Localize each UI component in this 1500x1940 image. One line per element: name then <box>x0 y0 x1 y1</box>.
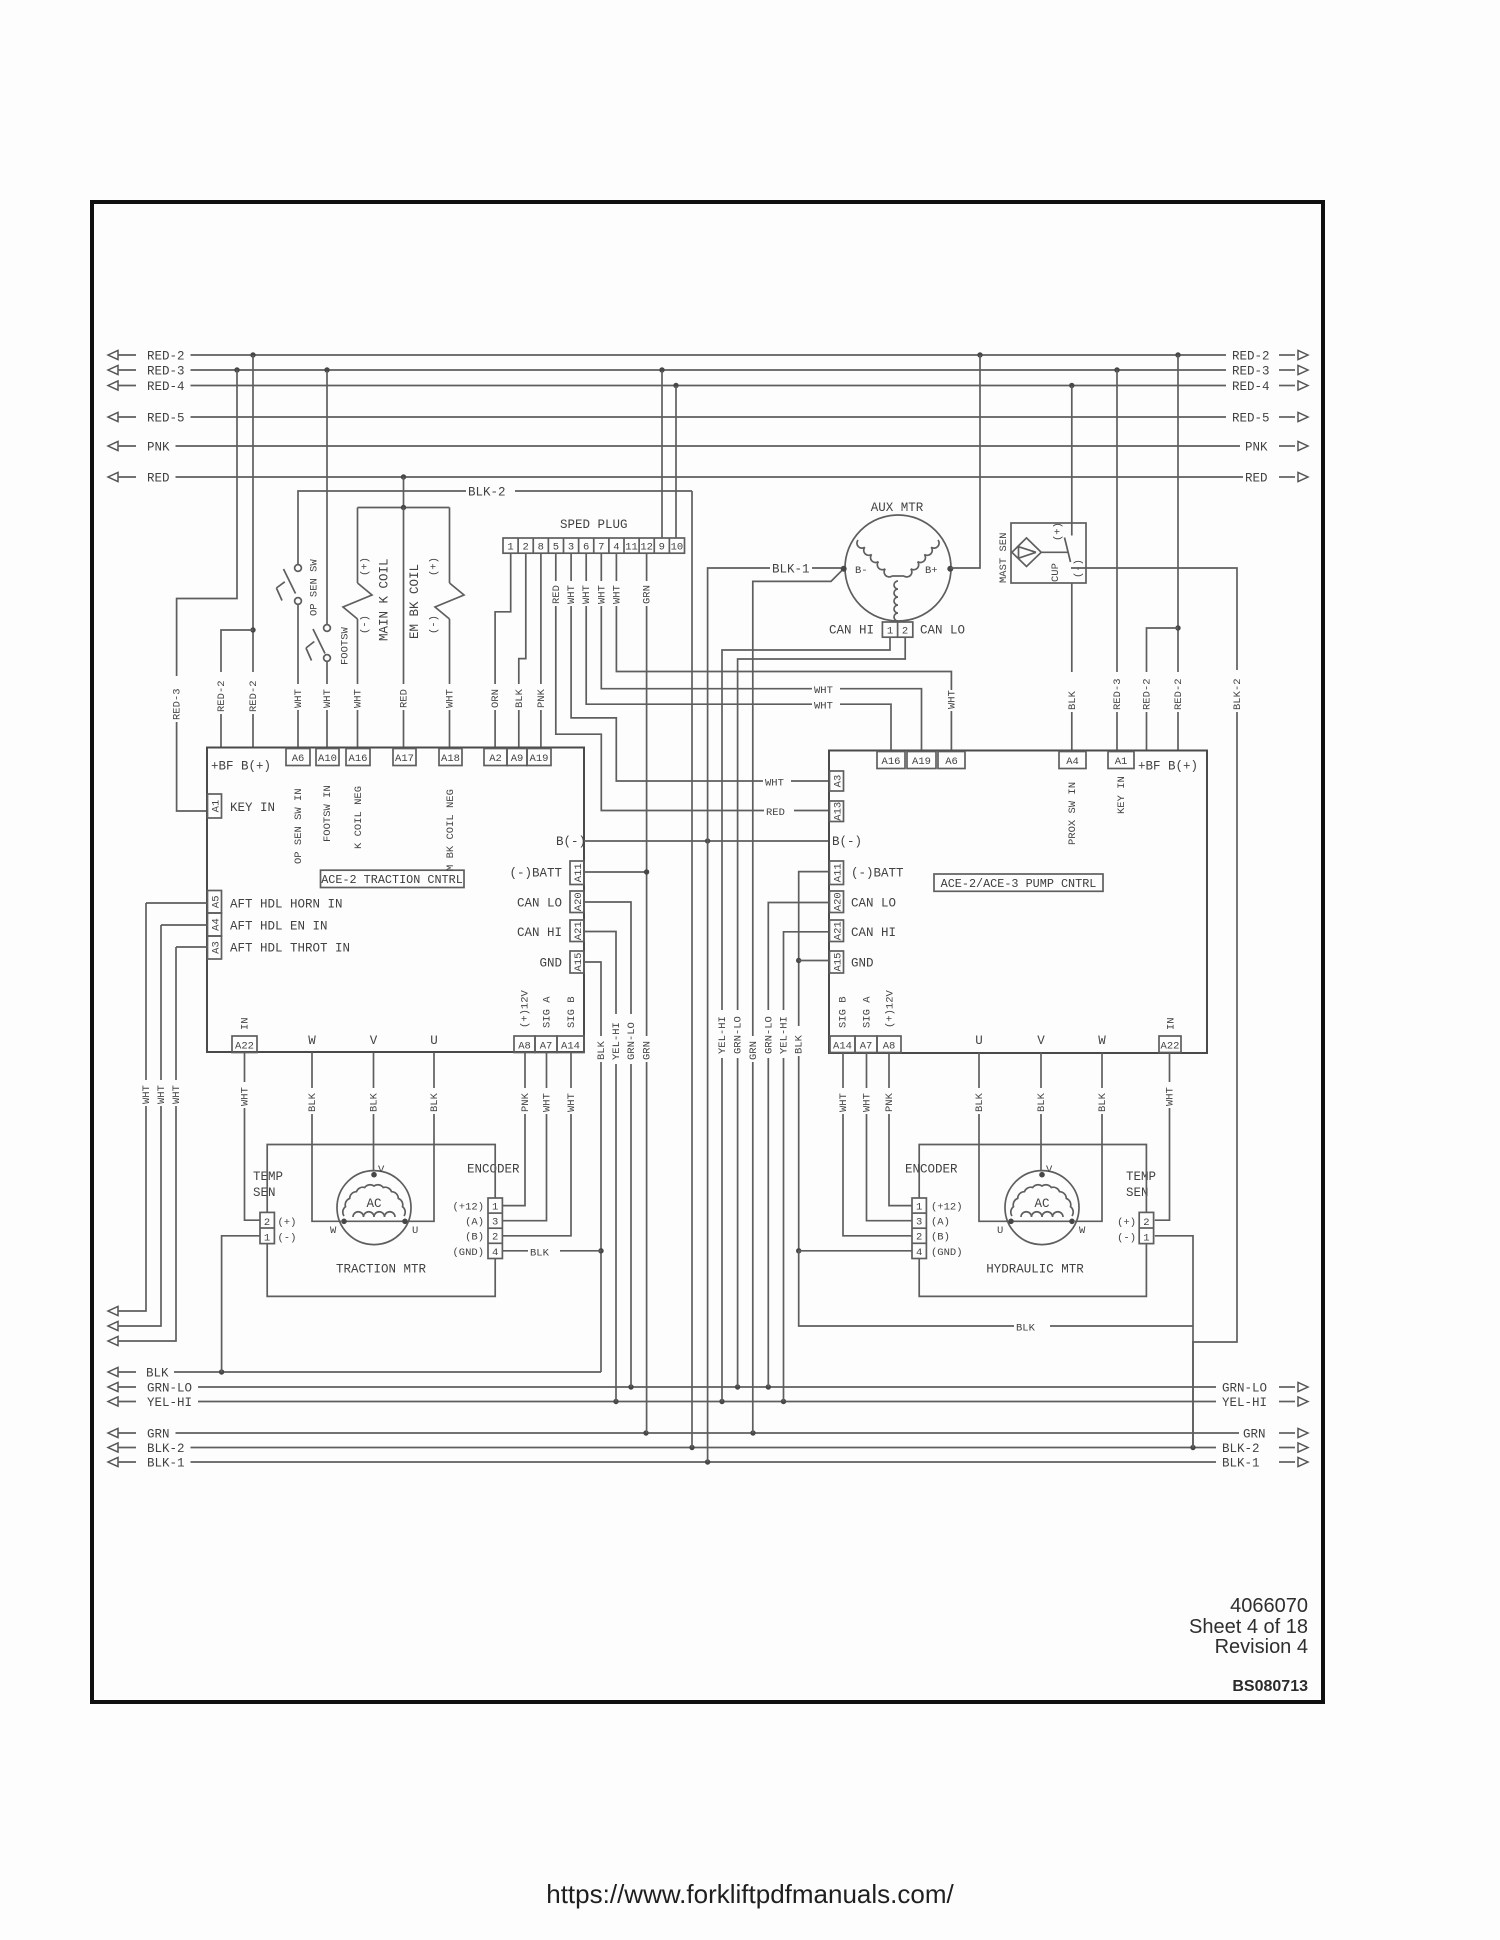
svg-text:AFT HDL HORN IN: AFT HDL HORN IN <box>230 898 343 912</box>
svg-text:SPED PLUG: SPED PLUG <box>560 518 628 532</box>
svg-text:(+12): (+12) <box>931 1202 963 1214</box>
svg-text:RED-5: RED-5 <box>147 412 185 426</box>
pin A5 traction (AFT HDL HORN IN) <box>208 891 343 914</box>
svg-text:(+): (+) <box>360 557 372 576</box>
svg-text:A1: A1 <box>1115 756 1128 768</box>
wire RED bus drop to coil common <box>403 477 405 508</box>
svg-text:RED-2: RED-2 <box>1232 350 1270 364</box>
svg-text:BLK: BLK <box>307 1092 319 1112</box>
svg-text:BLK-2: BLK-2 <box>1232 678 1244 710</box>
svg-text:B+: B+ <box>925 565 938 577</box>
svg-text:A1: A1 <box>210 800 222 813</box>
svg-text:2: 2 <box>264 1217 270 1229</box>
label W V U traction <box>308 1034 438 1048</box>
svg-text:A13: A13 <box>832 802 844 821</box>
pin A16 pump top <box>877 752 905 769</box>
svg-text:RED: RED <box>766 807 785 819</box>
wire bus RED-3 (top) <box>108 365 1308 379</box>
connector ENCODER pump <box>905 1163 963 1259</box>
svg-text:GRN: GRN <box>748 1041 760 1060</box>
svg-text:3: 3 <box>916 1217 922 1229</box>
pin A2 traction top <box>484 749 507 766</box>
svg-text:WHT: WHT <box>566 1093 578 1112</box>
svg-text:A7: A7 <box>860 1040 873 1052</box>
svg-text:(A): (A) <box>931 1217 950 1229</box>
svg-text:3: 3 <box>492 1217 498 1229</box>
svg-text:GRN: GRN <box>642 1041 654 1060</box>
wire CAN HI traction (YEL-HI) <box>584 932 623 1402</box>
svg-text:CAN LO: CAN LO <box>517 897 562 911</box>
wire GND traction (BLK) <box>584 962 608 1372</box>
pin A3 pump (WHT) <box>830 771 845 791</box>
svg-text:BLK: BLK <box>1016 1323 1036 1335</box>
svg-text:V: V <box>1046 1164 1053 1176</box>
svg-text:WHT: WHT <box>542 1093 554 1112</box>
svg-text:A7: A7 <box>540 1040 553 1052</box>
wire bus BLK (bottom left) <box>108 1367 601 1381</box>
svg-text:+BF B(+): +BF B(+) <box>211 760 271 774</box>
svg-text:A20: A20 <box>573 892 585 911</box>
svg-text:(-): (-) <box>278 1233 297 1245</box>
svg-text:BLK: BLK <box>794 1034 806 1054</box>
svg-text:ENCODER: ENCODER <box>467 1163 520 1177</box>
node RED-4 junctions <box>673 383 1074 388</box>
pin A18 traction top <box>439 749 462 766</box>
svg-text:V: V <box>370 1034 378 1048</box>
wire bus GRN-LO (bottom) <box>108 1382 1308 1396</box>
svg-text:WHT: WHT <box>171 1085 183 1104</box>
wire RED-3 to traction A1 KEY IN <box>170 370 237 811</box>
svg-text:1: 1 <box>507 542 513 554</box>
wire BLK-2 (top, to OP SEN SW and down mid) <box>298 484 692 565</box>
svg-text:WHT: WHT <box>581 585 593 604</box>
wire ORN SPED pin1 to A2 <box>489 553 511 748</box>
svg-text:RED-3: RED-3 <box>1232 365 1270 379</box>
svg-text:WHT: WHT <box>322 689 334 708</box>
wire GRN SPED pin12 to GRN bus <box>640 553 654 1433</box>
svg-text:CAN HI: CAN HI <box>829 624 874 638</box>
svg-text:B(-): B(-) <box>832 835 862 849</box>
svg-text:AFT HDL THROT IN: AFT HDL THROT IN <box>230 942 350 956</box>
svg-text:WHT: WHT <box>293 689 305 708</box>
wire BLK U phase pump <box>973 1053 1009 1222</box>
svg-text:YEL-HI: YEL-HI <box>611 1022 623 1060</box>
svg-text:3: 3 <box>568 542 574 554</box>
wire WHT AFT HDL EN (arrow) <box>108 925 161 1331</box>
svg-text:A2: A2 <box>489 753 502 765</box>
label WHT x3 on AFT HDL wires <box>140 1080 183 1106</box>
svg-text:BLK: BLK <box>429 1092 441 1112</box>
svg-text:BLK: BLK <box>514 688 526 708</box>
svg-text:WHT: WHT <box>946 690 958 709</box>
svg-text:(-): (-) <box>1117 1233 1136 1245</box>
wire MAST SEN (-) to BLK-2 right <box>1071 568 1244 1448</box>
svg-text:1: 1 <box>264 1233 270 1245</box>
node BLK junction <box>219 1369 224 1374</box>
wire WHT SPED pin7 to pump A19 <box>595 553 922 751</box>
svg-text:BLK-1: BLK-1 <box>1222 1457 1260 1471</box>
svg-text:A19: A19 <box>912 756 931 768</box>
svg-text:RED-2: RED-2 <box>1173 678 1185 710</box>
pin A14 pump (SIG B) <box>830 996 855 1052</box>
sensor MAST SEN (CUP switch) <box>998 522 1086 583</box>
svg-text:1: 1 <box>1143 1233 1149 1245</box>
svg-text:BLK-1: BLK-1 <box>772 563 810 577</box>
svg-text:GRN-LO: GRN-LO <box>626 1022 638 1060</box>
pin A19 traction top <box>527 749 551 766</box>
svg-text:GRN: GRN <box>147 1428 170 1442</box>
wire bus YEL-HI (bottom) <box>108 1396 1308 1410</box>
svg-text:A8: A8 <box>518 1040 531 1052</box>
svg-text:SIG A: SIG A <box>542 996 554 1028</box>
wire WHT OP SEN SW to A6 <box>292 605 306 749</box>
svg-text:A20: A20 <box>832 892 844 911</box>
pin A15 pump (GND) <box>830 951 874 973</box>
svg-text:ENCODER: ENCODER <box>905 1163 958 1177</box>
svg-text:BLK-2: BLK-2 <box>1222 1442 1260 1456</box>
label EM BK COIL <box>408 564 422 639</box>
svg-text:GRN-LO: GRN-LO <box>763 1016 775 1054</box>
svg-text:B(-): B(-) <box>556 835 586 849</box>
svg-text:BLK: BLK <box>596 1040 608 1060</box>
svg-text:SIG B: SIG B <box>838 996 850 1028</box>
svg-text:7: 7 <box>598 542 604 554</box>
svg-text:4066070: 4066070 <box>1230 1595 1308 1617</box>
svg-text:Sheet 4 of 18: Sheet 4 of 18 <box>1189 1616 1308 1638</box>
motor AUX MTR <box>841 501 954 621</box>
node GRN junctions <box>643 1430 755 1435</box>
wire CAN LO pump (GRN-LO) <box>762 903 829 1388</box>
wire B(-) traction to pump B(-) <box>584 838 829 843</box>
wire bus RED (top) <box>108 472 1308 486</box>
svg-text:WHT: WHT <box>445 689 457 708</box>
svg-text:GRN: GRN <box>1243 1428 1266 1442</box>
svg-text:A11: A11 <box>832 863 844 882</box>
svg-text:(+)12V: (+)12V <box>520 989 532 1028</box>
svg-text:WHT: WHT <box>814 701 833 713</box>
svg-text:(-): (-) <box>360 615 372 634</box>
wire BLK W phase traction <box>306 1053 342 1222</box>
svg-text:A22: A22 <box>235 1040 254 1052</box>
svg-text:BLK-2: BLK-2 <box>147 1442 185 1456</box>
label ACE-2 TRACTION CNTRL <box>321 870 465 887</box>
pin A16 traction top <box>346 749 370 766</box>
wire GND pump <box>799 960 829 962</box>
wire bus BLK-2 (bottom) <box>108 1442 1308 1456</box>
svg-text:RED-3: RED-3 <box>1112 678 1124 710</box>
wire WHT A22 to TEMP SEN (+) <box>238 1053 260 1221</box>
svg-text:RED: RED <box>551 585 563 604</box>
svg-text:WHT: WHT <box>240 1087 252 1106</box>
svg-text:5: 5 <box>553 542 559 554</box>
wire WHT AFT HDL THROT (arrow) <box>108 947 176 1346</box>
svg-text:RED-3: RED-3 <box>172 688 184 720</box>
svg-text:1: 1 <box>887 626 893 638</box>
wire RED-2 branch to traction +BF <box>215 630 254 748</box>
motor HYDRAULIC MTR <box>986 1164 1086 1277</box>
svg-text:PNK: PNK <box>520 1092 532 1112</box>
svg-text:AFT HDL EN IN: AFT HDL EN IN <box>230 920 328 934</box>
svg-text:BLK: BLK <box>369 1092 381 1112</box>
svg-text:(-)BATT: (-)BATT <box>509 867 562 881</box>
svg-text:A17: A17 <box>395 753 414 765</box>
svg-text:KEY IN: KEY IN <box>1116 776 1128 814</box>
svg-text:(+): (+) <box>1053 522 1065 541</box>
svg-text:V: V <box>1037 1034 1045 1048</box>
svg-text:https://www.forkliftpdfmanuals: https://www.forkliftpdfmanuals.com/ <box>546 1879 954 1909</box>
svg-text:RED-2: RED-2 <box>147 350 185 364</box>
svg-text:(GND): (GND) <box>931 1247 963 1259</box>
svg-text:(A): (A) <box>465 1217 484 1229</box>
svg-text:BS080713: BS080713 <box>1232 1678 1308 1695</box>
svg-text:AUX MTR: AUX MTR <box>871 501 924 515</box>
wire (-)BATT traction to GRN <box>584 869 649 874</box>
svg-text:CAN HI: CAN HI <box>517 926 562 940</box>
svg-text:ACE-2 TRACTION CNTRL: ACE-2 TRACTION CNTRL <box>321 873 463 887</box>
svg-text:WHT: WHT <box>156 1085 168 1104</box>
wire BLK pump TEMP SEN (-) <box>799 1236 1193 1448</box>
wire bus BLK-1 (bottom) <box>108 1457 1308 1471</box>
svg-text:BLK: BLK <box>1097 1092 1109 1112</box>
svg-text:OP SEN SW IN: OP SEN SW IN <box>293 788 305 864</box>
wire BLK U phase traction <box>408 1053 441 1222</box>
svg-text:MAIN K COIL: MAIN K COIL <box>378 558 392 641</box>
svg-text:RED-5: RED-5 <box>1232 412 1270 426</box>
svg-text:GND: GND <box>539 957 562 971</box>
wire AFT HDL EN IN <box>161 924 208 926</box>
svg-text:CUP: CUP <box>1050 563 1062 582</box>
svg-text:WHT: WHT <box>566 585 578 604</box>
wire RED SPED pin5 to pump A13 <box>549 553 829 819</box>
wire (-)BATT pump (BLK drop) <box>792 872 829 1254</box>
node BLK-2 junctions <box>689 1445 1195 1450</box>
svg-text:RED: RED <box>147 472 170 486</box>
label MAIN K COIL <box>378 558 392 641</box>
svg-text:CAN HI: CAN HI <box>851 926 896 940</box>
svg-text:A16: A16 <box>882 756 901 768</box>
svg-text:RED-2: RED-2 <box>1142 678 1154 710</box>
svg-text:A16: A16 <box>349 753 368 765</box>
node YEL-HI junctions <box>613 1399 786 1404</box>
wire RED coil common to A17 <box>397 508 411 749</box>
svg-text:4: 4 <box>916 1247 922 1259</box>
pin A7 pump (SIG A) <box>855 996 877 1053</box>
pin A21 pump (CAN HI) <box>830 920 897 942</box>
switch FOOTSW <box>306 625 352 665</box>
svg-text:BLK: BLK <box>974 1092 986 1112</box>
svg-text:A19: A19 <box>530 753 549 765</box>
wire motor cable loop pump <box>919 1145 1146 1297</box>
svg-text:RED: RED <box>399 689 411 708</box>
pin A20 pump (CAN LO) <box>830 891 897 913</box>
wire bus GRN (bottom) <box>108 1428 1308 1442</box>
svg-text:ORN: ORN <box>490 689 502 708</box>
svg-text:PNK: PNK <box>536 688 548 708</box>
pin A22 pump (IN) <box>1159 1017 1181 1052</box>
node BLK-1 junctions <box>705 1459 710 1464</box>
svg-text:4: 4 <box>613 542 619 554</box>
svg-text:A9: A9 <box>511 753 524 765</box>
svg-text:EM BK COIL: EM BK COIL <box>408 564 422 639</box>
svg-text:WHT: WHT <box>1165 1087 1177 1106</box>
svg-text:A6: A6 <box>945 756 958 768</box>
wire CAN HI pump (YEL-HI) <box>777 932 829 1402</box>
wire coil top common <box>358 505 450 510</box>
svg-text:GND: GND <box>851 957 874 971</box>
pin A11 pump ((-)BATT) <box>830 861 905 885</box>
svg-text:(GND): (GND) <box>452 1247 484 1259</box>
svg-text:U: U <box>430 1034 438 1048</box>
svg-text:CAN LO: CAN LO <box>851 897 896 911</box>
svg-text:A21: A21 <box>573 921 585 940</box>
pin A4 traction (AFT HDL EN IN) <box>208 913 328 936</box>
svg-text:YEL-HI: YEL-HI <box>717 1016 729 1054</box>
svg-text:(B): (B) <box>931 1232 950 1244</box>
pin A13 pump (RED) <box>830 801 845 822</box>
wire encoder GND pump to BLK <box>799 1250 912 1252</box>
pin A8 pump ((+)12V) <box>877 989 901 1052</box>
svg-text:(+): (+) <box>278 1217 297 1229</box>
wire motor cable loop traction <box>267 1145 495 1297</box>
svg-text:SIG B: SIG B <box>566 996 578 1028</box>
svg-text:RED-2: RED-2 <box>216 680 228 712</box>
svg-text:A5: A5 <box>210 895 222 908</box>
svg-text:6: 6 <box>583 542 589 554</box>
svg-text:A8: A8 <box>883 1040 896 1052</box>
svg-text:WHT: WHT <box>611 585 623 604</box>
wire BLK encoder GND traction <box>502 1244 601 1260</box>
svg-text:A15: A15 <box>832 953 844 972</box>
svg-text:V: V <box>378 1164 385 1176</box>
wire WHT A7 to encoder 3 <box>502 1053 553 1221</box>
svg-text:K COIL NEG: K COIL NEG <box>353 786 365 849</box>
svg-text:BLK: BLK <box>1036 1092 1048 1112</box>
wire WHT AFT HDL HORN (arrow) <box>108 903 146 1316</box>
svg-text:WHT: WHT <box>596 585 608 604</box>
wire BLK W phase pump <box>1075 1053 1109 1222</box>
border frame <box>92 202 1323 1702</box>
svg-text:(-)BATT: (-)BATT <box>851 867 904 881</box>
svg-text:Revision 4: Revision 4 <box>1215 1636 1308 1658</box>
wire SPED pin 10 from RED-4 <box>675 386 677 538</box>
svg-text:A18: A18 <box>441 753 460 765</box>
pin A10 traction top <box>316 749 339 766</box>
svg-text:U: U <box>412 1225 418 1237</box>
pin A14 traction (SIG B) <box>557 996 584 1052</box>
wire RED-2 to traction B(+) <box>247 355 261 748</box>
svg-text:W: W <box>330 1225 337 1237</box>
wire PNK A8 to encoder 1 <box>502 1053 532 1206</box>
svg-text:CAN LO: CAN LO <box>920 624 965 638</box>
svg-text:WHT: WHT <box>838 1093 850 1112</box>
svg-text:FOOTSW: FOOTSW <box>340 626 352 665</box>
svg-text:A14: A14 <box>833 1040 852 1052</box>
pin A20 traction (CAN LO) <box>517 891 585 913</box>
node RED junction <box>401 474 406 479</box>
svg-text:PNK: PNK <box>147 441 170 455</box>
svg-text:A4: A4 <box>210 918 222 931</box>
wire BLK SPED pin2 to A9 <box>512 553 526 748</box>
wire WHT A14 pump to encoder 2 <box>837 1053 913 1236</box>
wire BLK V phase traction <box>367 1053 381 1172</box>
wire AFT HDL HORN IN <box>146 902 208 904</box>
wire WHT SPED pin4 to pump A6 <box>610 553 959 751</box>
svg-text:(+): (+) <box>1117 1217 1136 1229</box>
node RED-3 junctions <box>234 367 1119 372</box>
connector AUX CAN (1 2) <box>829 622 965 638</box>
svg-text:WHT: WHT <box>141 1085 153 1104</box>
svg-text:(+)12V: (+)12V <box>885 989 897 1028</box>
connector TEMP SEN pump <box>1117 1170 1156 1245</box>
svg-text:AC: AC <box>1034 1197 1049 1211</box>
svg-text:RED-4: RED-4 <box>1232 380 1270 394</box>
svg-text:RED: RED <box>1245 472 1268 486</box>
svg-text:9: 9 <box>659 542 665 554</box>
svg-text:(+): (+) <box>429 557 441 576</box>
pin A7 traction (SIG A) <box>535 996 557 1053</box>
wire AFT HDL THROT IN <box>176 946 208 948</box>
svg-text:M BK COIL NEG: M BK COIL NEG <box>445 789 457 871</box>
node RED-2 junctions <box>250 352 1180 357</box>
pin A6 traction top <box>286 749 310 766</box>
svg-text:11: 11 <box>625 542 638 554</box>
svg-text:BLK: BLK <box>1067 690 1079 710</box>
svg-text:FOOTSW IN: FOOTSW IN <box>322 785 334 842</box>
pin A15 traction (GND) <box>539 951 584 973</box>
wire PNK SPED pin8 to A19 <box>534 553 548 748</box>
svg-text:B-: B- <box>855 565 868 577</box>
svg-text:BLK-2: BLK-2 <box>468 486 506 500</box>
svg-text:1: 1 <box>492 1202 498 1214</box>
wire bus RED-4 (top) <box>108 380 1308 394</box>
svg-text:A15: A15 <box>573 953 585 972</box>
svg-text:2: 2 <box>902 626 908 638</box>
svg-text:U: U <box>997 1225 1003 1237</box>
svg-text:10: 10 <box>671 542 684 554</box>
label ACE-2/ACE-3 PUMP CNTRL <box>934 874 1103 891</box>
svg-text:HYDRAULIC MTR: HYDRAULIC MTR <box>986 1263 1084 1277</box>
pin A3 traction (AFT HDL THROT IN) <box>208 936 351 959</box>
svg-text:W: W <box>308 1034 316 1048</box>
pin A17 traction top <box>393 749 416 766</box>
wire AUX B- to GRN vertical <box>746 569 843 1433</box>
wire bus RED-2 (top) <box>108 350 1308 364</box>
label U V W pump <box>975 1034 1106 1048</box>
svg-text:12: 12 <box>640 542 653 554</box>
wire RED-2 to pump B(+) <box>1172 355 1186 751</box>
svg-text:GRN-LO: GRN-LO <box>147 1382 192 1396</box>
pin A1 pump top <box>1108 752 1134 769</box>
wire BLK-2 mid vertical <box>691 491 693 1448</box>
svg-text:TEMP: TEMP <box>1126 1170 1156 1184</box>
wire AUX B+ to RED-2 <box>950 355 980 568</box>
pin A11 traction ((-)BATT) <box>509 861 584 885</box>
svg-text:WHT: WHT <box>862 1093 874 1112</box>
connector TEMP SEN traction <box>253 1170 296 1245</box>
svg-text:A6: A6 <box>292 753 305 765</box>
motor TRACTION MTR <box>330 1164 427 1277</box>
wire RED-4 to MAST SEN (+) <box>1071 386 1073 523</box>
svg-text:BLK: BLK <box>146 1367 169 1381</box>
pin A6 pump top <box>938 752 965 769</box>
svg-text:AC: AC <box>366 1197 381 1211</box>
wire AUX CAN HI (YEL-HI mid) <box>716 637 891 1401</box>
connector ENCODER traction <box>452 1163 520 1259</box>
wire CAN LO traction (GRN-LO) <box>584 902 638 1387</box>
svg-text:ACE-2/ACE-3 PUMP CNTRL: ACE-2/ACE-3 PUMP CNTRL <box>941 877 1097 891</box>
wire TEMP SEN (-) to BLK bus <box>222 1236 260 1372</box>
svg-text:A11: A11 <box>573 863 585 882</box>
